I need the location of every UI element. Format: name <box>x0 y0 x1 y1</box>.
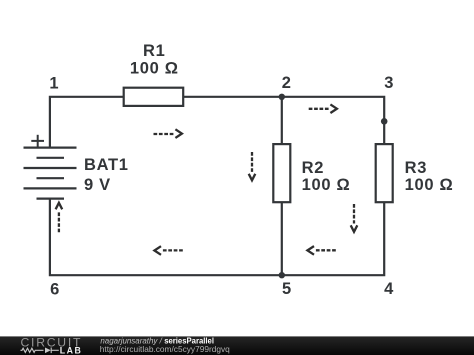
CircuitLab logo diode symbol <box>45 348 59 354</box>
svg-text:1: 1 <box>49 74 59 92</box>
svg-text:100 Ω: 100 Ω <box>302 176 351 194</box>
resistor R2 <box>273 144 290 202</box>
wire R1 right lead to node 2 <box>183 96 282 98</box>
junction dot on node 3 branch <box>381 118 388 125</box>
svg-text:R3: R3 <box>405 159 428 177</box>
svg-text:2: 2 <box>282 74 292 92</box>
current arrow left bottom-left <box>154 246 182 255</box>
battery BAT1 plates <box>24 148 77 199</box>
svg-text:4: 4 <box>384 280 394 298</box>
current arrow left bottom-middle <box>307 246 335 255</box>
svg-text:6: 6 <box>50 280 60 298</box>
current arrow down left of R2 <box>249 152 256 180</box>
wire node 5 to node 6 corner up to battery negative <box>50 199 282 276</box>
wire battery positive to node 1 to R1 left lead <box>50 97 124 148</box>
current arrow right below R1 <box>154 129 182 138</box>
wire R3 bottom to node 4 corner to node 5 <box>282 202 384 275</box>
svg-text:BAT1: BAT1 <box>84 156 129 174</box>
current arrow up below battery <box>56 203 63 233</box>
svg-text:9 V: 9 V <box>84 176 111 194</box>
svg-text:R1: R1 <box>143 42 166 60</box>
svg-text:R2: R2 <box>302 159 325 177</box>
svg-text:100 Ω: 100 Ω <box>405 176 454 194</box>
CircuitLab logo resistor zigzag <box>21 348 44 352</box>
svg-text:3: 3 <box>384 74 394 92</box>
current arrow down left of R3 <box>351 204 358 232</box>
wire node 2 down to R2 top <box>281 97 283 144</box>
node 2 junction dot <box>279 94 285 100</box>
svg-text:LAB: LAB <box>60 345 83 355</box>
resistor R1 <box>124 88 184 106</box>
footer bar <box>0 336 474 355</box>
wire R2 bottom to node 5 <box>281 202 283 275</box>
svg-text:5: 5 <box>282 280 292 298</box>
battery plus sign <box>31 135 44 147</box>
node 5 junction dot <box>279 272 285 278</box>
svg-text:100 Ω: 100 Ω <box>130 60 179 78</box>
resistor R3 <box>376 144 393 202</box>
svg-text:http://circuitlab.com/c5cyy799: http://circuitlab.com/c5cyy799rdgvq <box>100 344 230 354</box>
current arrow right between node 2 and 3 <box>309 104 337 113</box>
wire node 2 to node 3 corner down to R3 <box>282 97 384 144</box>
